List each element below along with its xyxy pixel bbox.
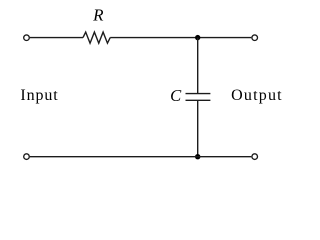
wire (bottom return) [30,156,251,158]
svg-text:C: C [170,86,182,105]
node (top junction dot) [195,35,200,40]
resistor R [83,32,110,43]
svg-text:Input: Input [20,87,58,104]
node (bottom junction dot) [195,154,200,159]
input terminal J1 (top-left open circle) [24,35,30,41]
output terminal J2 (top-right open circle) [252,35,258,41]
svg-text:R: R [92,6,104,25]
input terminal J3 (bottom-left open circle) [24,154,30,160]
wire (top-left: input terminal to resistor) [30,37,83,39]
capacitor C [186,94,211,101]
wire (capacitor branch, lower segment) [197,100,199,156]
svg-text:Output: Output [231,87,283,104]
output terminal J4 (bottom-right open circle) [252,154,258,160]
wire (top: resistor to output terminal) [110,37,251,39]
wire (capacitor branch, upper segment) [197,38,199,94]
